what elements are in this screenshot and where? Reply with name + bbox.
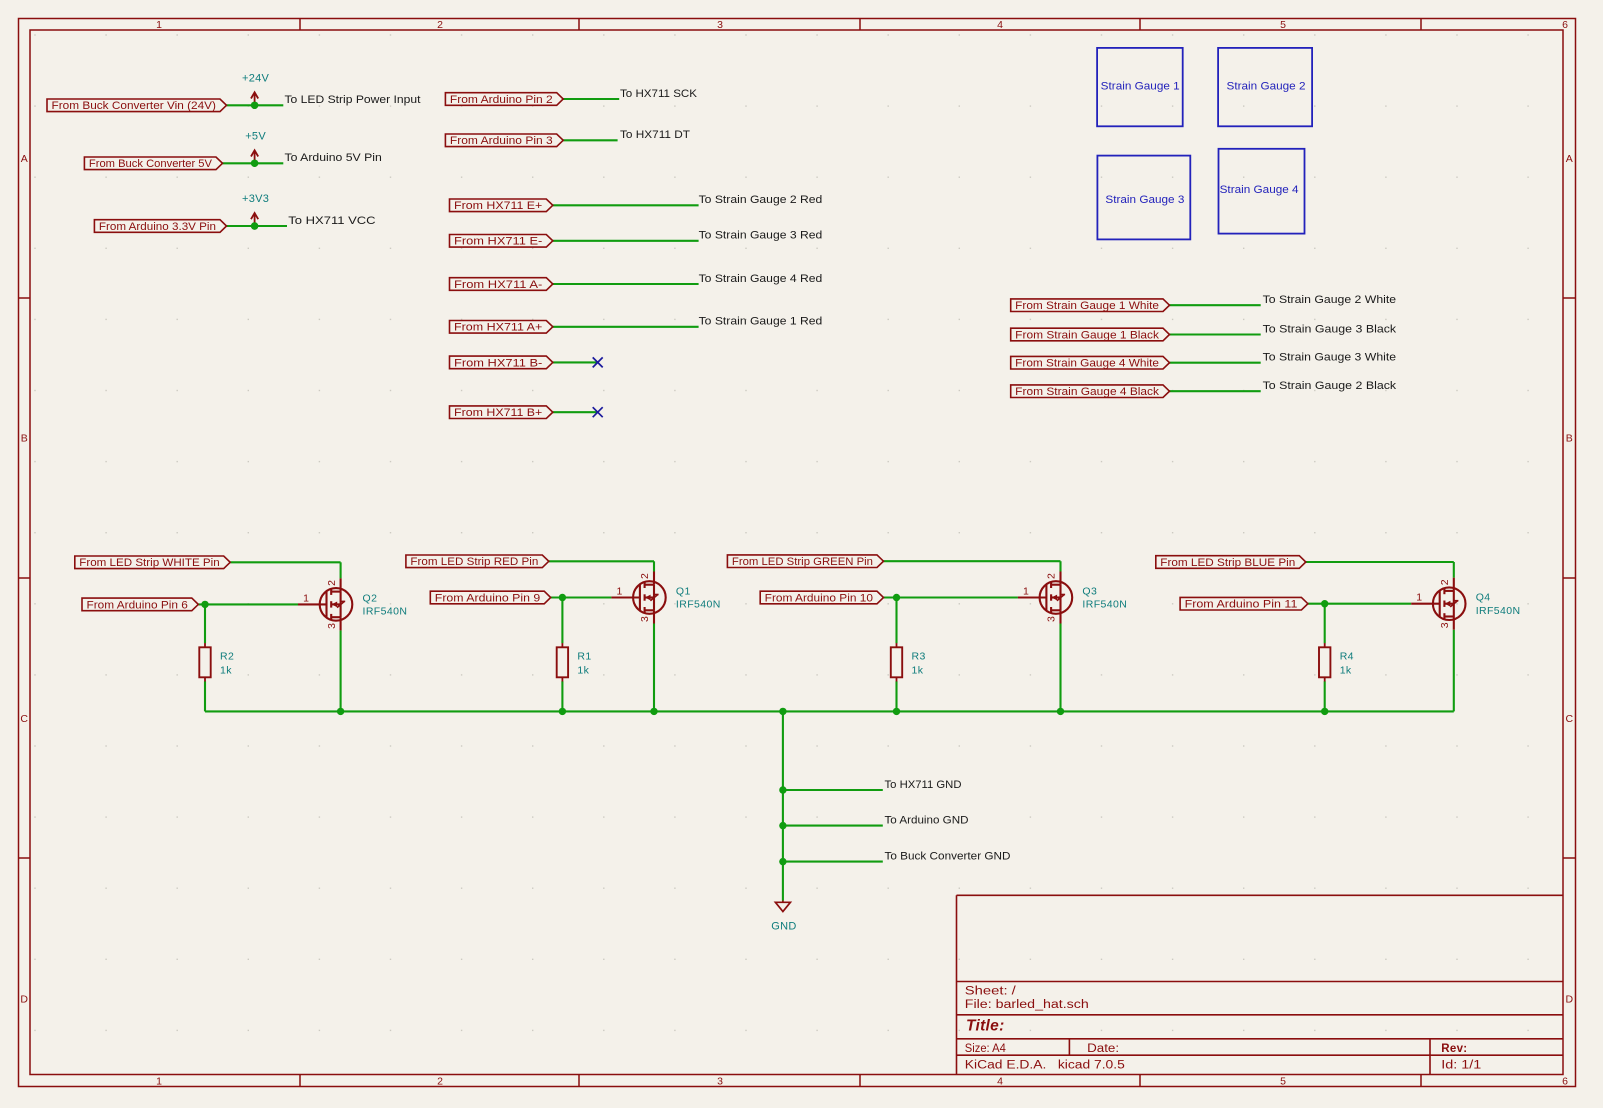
svg-text:Rev:: Rev: [1441,1043,1467,1055]
svg-text:From Strain Gauge 4 White: From Strain Gauge 4 White [1015,358,1159,370]
svg-text:To LED Strip Power Input: To LED Strip Power Input [285,94,421,106]
svg-text:R2: R2 [220,651,234,663]
svg-text:Size: A4: Size: A4 [965,1043,1007,1055]
svg-text:To Strain Gauge 3 White: To Strain Gauge 3 White [1263,352,1397,364]
svg-text:To Arduino 5V Pin: To Arduino 5V Pin [285,152,382,164]
svg-text:D: D [1566,993,1574,1005]
svg-text:From Arduino Pin 10: From Arduino Pin 10 [765,592,873,604]
svg-text:2: 2 [326,580,338,586]
svg-text:To Arduino GND: To Arduino GND [885,814,969,826]
svg-text:5: 5 [1280,1076,1286,1088]
svg-text:2: 2 [1439,579,1451,585]
svg-text:From Arduino Pin 11: From Arduino Pin 11 [1185,599,1298,611]
svg-text:4: 4 [997,19,1003,31]
svg-text:Strain Gauge 4: Strain Gauge 4 [1220,184,1299,196]
svg-text:5: 5 [1280,19,1286,31]
svg-text:To HX711 GND: To HX711 GND [885,779,962,791]
svg-text:To HX711 DT: To HX711 DT [620,129,690,141]
svg-text:1k: 1k [1340,665,1352,677]
svg-text:R1: R1 [577,651,591,663]
svg-text:From Arduino Pin 2: From Arduino Pin 2 [450,94,553,106]
svg-text:From Arduino Pin 3: From Arduino Pin 3 [450,135,553,147]
svg-text:To HX711 SCK: To HX711 SCK [620,88,698,100]
svg-text:A: A [1566,153,1573,165]
svg-text:1: 1 [303,592,309,604]
svg-text:3: 3 [717,1076,723,1088]
svg-text:3: 3 [1439,622,1451,628]
svg-text:From LED Strip BLUE Pin: From LED Strip BLUE Pin [1160,557,1295,569]
svg-text:Title:: Title: [966,1018,1005,1035]
svg-text:1: 1 [156,1076,162,1088]
svg-text:To Strain Gauge 3 Black: To Strain Gauge 3 Black [1263,323,1397,335]
svg-text:IRF540N: IRF540N [676,599,721,611]
svg-text:From Arduino Pin 6: From Arduino Pin 6 [87,599,188,611]
svg-text:R4: R4 [1340,651,1354,663]
svg-text:Q4: Q4 [1476,592,1491,604]
svg-text:1: 1 [1416,592,1422,604]
svg-text:From HX711 A-: From HX711 A- [454,279,543,291]
svg-text:From HX711 B-: From HX711 B- [454,357,543,369]
svg-text:Strain Gauge 2: Strain Gauge 2 [1227,81,1306,93]
svg-text:File: barled_hat.sch: File: barled_hat.sch [965,999,1089,1011]
svg-text:1k: 1k [912,665,924,677]
svg-text:3: 3 [1046,616,1058,622]
svg-text:From LED Strip WHITE Pin: From LED Strip WHITE Pin [79,557,219,569]
svg-text:To Strain Gauge 4 Red: To Strain Gauge 4 Red [699,273,823,285]
svg-text:D: D [20,993,28,1005]
svg-text:1k: 1k [220,665,232,677]
svg-text:Date:: Date: [1087,1043,1119,1055]
svg-text:IRF540N: IRF540N [363,606,408,618]
svg-text:C: C [1566,713,1574,725]
svg-text:6: 6 [1562,1076,1568,1088]
svg-text:Q3: Q3 [1082,586,1097,598]
svg-text:From HX711 A+: From HX711 A+ [454,322,542,334]
svg-text:To Strain Gauge 2 Red: To Strain Gauge 2 Red [699,194,823,206]
svg-text:From HX711 E-: From HX711 E- [454,236,543,248]
svg-text:From Buck Converter Vin (24V): From Buck Converter Vin (24V) [52,100,217,112]
svg-text:GND: GND [771,921,796,933]
svg-text:Q2: Q2 [363,592,378,604]
svg-text:IRF540N: IRF540N [1476,605,1521,617]
svg-text:B: B [21,432,28,444]
svg-text:6: 6 [1562,19,1568,31]
svg-text:1: 1 [1023,586,1029,598]
svg-text:3: 3 [326,623,338,629]
svg-text:From Strain Gauge 4 Black: From Strain Gauge 4 Black [1015,386,1159,398]
svg-text:A: A [21,153,28,165]
svg-text:Strain Gauge 3: Strain Gauge 3 [1105,194,1184,206]
svg-text:From Strain Gauge 1 White: From Strain Gauge 1 White [1015,300,1159,312]
svg-text:2: 2 [437,1076,443,1088]
svg-text:From LED Strip GREEN Pin: From LED Strip GREEN Pin [732,556,873,568]
svg-text:To Strain Gauge 2 Black: To Strain Gauge 2 Black [1263,380,1397,392]
svg-text:2: 2 [437,19,443,31]
svg-text:1k: 1k [577,665,589,677]
svg-text:2: 2 [1046,573,1058,579]
svg-text:3: 3 [717,19,723,31]
svg-text:From Arduino 3.3V Pin: From Arduino 3.3V Pin [99,221,216,233]
svg-text:To Buck Converter GND: To Buck Converter GND [885,850,1011,862]
svg-text:2: 2 [639,573,651,579]
svg-text:Sheet: /: Sheet: / [965,986,1017,998]
svg-text:+3V3: +3V3 [242,193,269,205]
svg-text:From LED Strip RED Pin: From LED Strip RED Pin [410,556,538,568]
svg-text:To HX711 VCC: To HX711 VCC [288,215,375,227]
svg-text:C: C [20,713,28,725]
svg-text:From Strain Gauge 1 Black: From Strain Gauge 1 Black [1015,329,1159,341]
svg-text:+5V: +5V [245,131,266,143]
svg-text:R3: R3 [912,651,926,663]
svg-text:4: 4 [997,1076,1003,1088]
svg-text:KiCad E.D.A. kicad 7.0.5: KiCad E.D.A. kicad 7.0.5 [965,1060,1125,1072]
svg-text:Id: 1/1: Id: 1/1 [1441,1060,1481,1072]
svg-text:From Arduino Pin 9: From Arduino Pin 9 [435,592,540,604]
svg-text:To Strain Gauge 3 Red: To Strain Gauge 3 Red [699,230,823,242]
svg-text:1: 1 [156,19,162,31]
svg-text:Q1: Q1 [676,586,691,598]
svg-text:+24V: +24V [242,73,270,85]
svg-text:IRF540N: IRF540N [1082,599,1127,611]
svg-text:B: B [1566,432,1573,444]
svg-text:To Strain Gauge 2 White: To Strain Gauge 2 White [1263,294,1397,306]
svg-text:From HX711 B+: From HX711 B+ [454,407,542,419]
svg-text:1: 1 [616,586,622,598]
svg-text:3: 3 [639,616,651,622]
svg-text:From HX711 E+: From HX711 E+ [454,200,542,212]
svg-text:To Strain Gauge 1 Red: To Strain Gauge 1 Red [699,316,823,328]
svg-text:Strain Gauge 1: Strain Gauge 1 [1101,81,1180,93]
svg-text:From Buck Converter 5V: From Buck Converter 5V [89,158,213,170]
